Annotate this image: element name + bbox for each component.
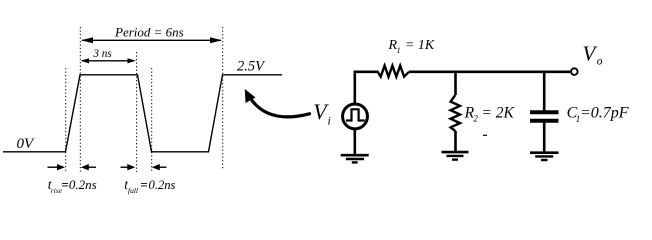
svg-text:1: 1: [397, 46, 401, 55]
wire R1 to Vo terminal: [409, 71, 570, 74]
terminal Vo: [571, 68, 578, 75]
svg-text:i: i: [328, 114, 331, 128]
dotted guide line fall1 top: [136, 52, 138, 172]
dotted guide line rise1 top: [79, 27, 81, 172]
dotted guide line fall1 bottom: [151, 68, 153, 172]
ground under R2: [442, 152, 469, 160]
label R2 = 2K: [464, 104, 515, 123]
svg-text:0.2ns: 0.2ns: [149, 178, 176, 192]
stray mark under R2 label: [483, 134, 487, 136]
wire R2 to ground: [454, 131, 457, 151]
label R1 = 1K: [388, 38, 435, 55]
wire node to C1: [543, 71, 546, 111]
svg-text:0V: 0V: [17, 136, 36, 152]
svg-text:0.2ns: 0.2ns: [69, 177, 97, 192]
label Vo: [583, 42, 603, 68]
label Vi: [313, 99, 331, 128]
svg-text:o: o: [597, 56, 603, 68]
svg-text:= 1K: = 1K: [405, 38, 435, 53]
dimension arrows t_fall: [121, 164, 167, 170]
svg-text:2: 2: [473, 114, 478, 124]
resistor R2: [451, 95, 460, 131]
svg-text:=: =: [140, 177, 147, 192]
source VS pulse source: [343, 104, 368, 129]
dotted guide line rise1 start: [65, 68, 67, 172]
ground under C1: [530, 153, 559, 160]
capacitor C1: [530, 112, 559, 121]
svg-text:= 2K: = 2K: [481, 104, 514, 121]
svg-text:=0.7pF: =0.7pF: [580, 105, 629, 122]
svg-text:=: =: [61, 177, 68, 192]
svg-text:Period = 6ns: Period = 6ns: [114, 25, 184, 40]
dimension arrows t_rise: [48, 164, 97, 170]
ground under source: [341, 155, 369, 162]
resistor R1: [378, 66, 409, 77]
dotted guide line rise2 top: [222, 27, 224, 170]
svg-text:V: V: [583, 42, 598, 66]
dimension arrow 3 ns: [81, 58, 137, 63]
label C1 = 0.7pF: [567, 105, 629, 124]
svg-text:fall: fall: [128, 186, 138, 195]
label t_rise = 0.2ns: [48, 177, 97, 195]
svg-text:2.5V: 2.5V: [237, 59, 266, 75]
curved arrow Vi to waveform: [245, 89, 310, 117]
wire source top to R1: [355, 72, 379, 104]
wire source to ground: [353, 130, 356, 155]
waveform Vi pulse train: [3, 75, 282, 152]
wire node to R2: [454, 71, 457, 96]
wire C1 to ground: [543, 123, 546, 152]
svg-text:3 ns: 3 ns: [92, 48, 112, 60]
dimension arrow Period: [81, 37, 222, 43]
label t_fall = 0.2ns: [124, 177, 175, 195]
